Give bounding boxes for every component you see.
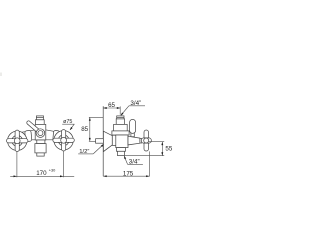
front body cap base xyxy=(35,120,44,125)
side cross handle xyxy=(141,130,151,151)
dimension 3/4 bottom xyxy=(123,155,143,165)
side union nut xyxy=(112,135,116,145)
side lever xyxy=(131,132,134,137)
edge smudge xyxy=(0,73,2,77)
side inlet nipple 1/2 xyxy=(96,139,104,144)
dimension dia75 xyxy=(62,119,74,131)
side outlet tip xyxy=(117,151,124,155)
left hub xyxy=(25,130,32,141)
dimension 175 xyxy=(103,151,149,177)
front body block xyxy=(35,124,46,140)
dimension 85 xyxy=(81,117,103,141)
front outlet nut xyxy=(35,144,46,153)
front body cap xyxy=(36,116,43,120)
front arm tube xyxy=(22,130,59,140)
dimension 1/2 xyxy=(78,143,104,155)
side wall line xyxy=(102,106,104,176)
side upper body xyxy=(112,131,129,135)
front outlet tip xyxy=(37,153,44,156)
svg-text:55: 55 xyxy=(165,145,172,152)
side valve cone xyxy=(128,136,140,145)
dimension 170+30 xyxy=(10,151,74,178)
side wall flange xyxy=(103,131,112,151)
svg-text:175: 175 xyxy=(123,170,134,177)
dimension 3/4 top xyxy=(120,100,145,117)
front lever xyxy=(26,120,43,135)
front outlet neck xyxy=(37,140,45,144)
dimension 65 xyxy=(103,102,120,115)
right hub xyxy=(53,130,60,141)
svg-text:85: 85 xyxy=(81,126,88,133)
svg-text:+30: +30 xyxy=(49,168,56,173)
side top neck xyxy=(116,119,124,125)
svg-text:170: 170 xyxy=(36,170,47,177)
right handle xyxy=(53,130,74,151)
front boss xyxy=(36,129,45,138)
side lower step xyxy=(117,148,126,152)
side main body xyxy=(116,135,128,148)
side top thread xyxy=(117,116,124,119)
side bonnet top xyxy=(114,124,128,130)
side valve neck xyxy=(140,139,142,144)
left handle xyxy=(7,130,28,151)
dimension 55 xyxy=(124,142,172,156)
